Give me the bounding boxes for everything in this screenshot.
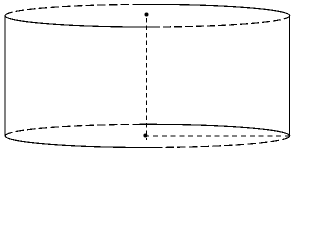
top ellipse lower-right arc (hidden, dashed) xyxy=(160,16,290,27)
bottom center dot xyxy=(143,134,147,138)
bottom ellipse lower-right arc (hidden, dashed) xyxy=(162,136,289,148)
left side of cylinder xyxy=(4,16,6,136)
bottom ellipse upper-right arc (solid) xyxy=(133,124,290,136)
top center dot xyxy=(145,13,149,17)
cylinder wireframe figure xyxy=(0,0,294,154)
top ellipse lower-left arc (solid) xyxy=(5,16,160,27)
axis (dashed vertical line) xyxy=(146,18,148,140)
bottom ellipse lower-left arc (solid) xyxy=(5,136,162,148)
right side of cylinder xyxy=(289,16,291,136)
top ellipse upper-right arc (solid) xyxy=(133,4,290,15)
bottom ellipse upper-left arc (hidden, dashed) xyxy=(5,124,132,135)
radius (dashed horizontal line) xyxy=(144,135,290,137)
top ellipse upper-left arc (hidden, dashed) xyxy=(5,4,132,15)
